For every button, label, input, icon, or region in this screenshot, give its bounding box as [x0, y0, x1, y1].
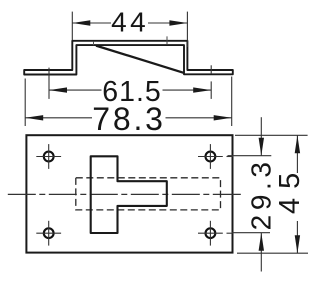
- dim 29.3 extension line bottom: [232, 232, 271, 234]
- hole bottom-left: [36, 221, 61, 246]
- svg-text:78.3: 78.3: [92, 101, 165, 137]
- dim 29.3 extension line top: [228, 155, 272, 157]
- dim 78.3 line: [25, 117, 92, 119]
- dim 45 arrow top (points up): [295, 135, 300, 153]
- dim 78.3 arrow left: [25, 115, 43, 120]
- plate outline (bottom view): [26, 135, 232, 252]
- dim 45 extension line bottom: [237, 252, 308, 254]
- dim 44 arrow right: [169, 20, 187, 25]
- dim 45 extension line top: [235, 134, 308, 136]
- bracket profile outline (top view): [24, 41, 233, 75]
- dim 78.3 extension line left: [24, 79, 26, 127]
- dim 61.5 extension line left: [48, 68, 50, 99]
- dim 61.5 arrow right: [193, 87, 211, 92]
- dim 78.3 arrow right: [214, 115, 232, 120]
- dim 29.3 line lower tail: [260, 233, 262, 272]
- dim 45 line lower segment: [296, 221, 298, 253]
- T-slot solid outline: [91, 156, 167, 233]
- dim 78.3 extension line right: [231, 77, 233, 127]
- dim 61.5 arrow left: [49, 87, 67, 92]
- horizontal centerline: [8, 193, 243, 195]
- bent-tab diagonal edge: [96, 46, 184, 73]
- dim 45 arrow bottom (points down): [295, 235, 300, 253]
- dim 44 extension line left: [71, 12, 73, 41]
- dim 61.5 line: [49, 89, 102, 91]
- hole top-left: [36, 144, 61, 169]
- dim 44 line: [72, 22, 111, 24]
- dim 44 extension line right: [186, 12, 188, 47]
- dim 61.5 extension line right upper segment: [210, 65, 212, 73]
- dim 45 line upper segment: [296, 135, 298, 173]
- dim 61.5 extension line right lower segment: [210, 81, 212, 99]
- small edge tick on top section: [166, 36, 168, 44]
- fold line tick at diagonal start: [93, 41, 95, 45]
- svg-text:45: 45: [274, 164, 306, 214]
- svg-text:29.3: 29.3: [246, 157, 277, 230]
- dim 29.3 arrow top (points down): [259, 138, 264, 156]
- hole bottom-right: [198, 221, 233, 246]
- dim 29.3 line upper tail: [260, 117, 262, 156]
- hole top-right: [198, 144, 233, 169]
- hidden-feature dashed rectangle: [76, 178, 221, 210]
- svg-text:44: 44: [111, 6, 149, 37]
- dim 29.3 arrow bottom (points up): [259, 233, 264, 251]
- dim 44 arrow left: [72, 20, 90, 25]
